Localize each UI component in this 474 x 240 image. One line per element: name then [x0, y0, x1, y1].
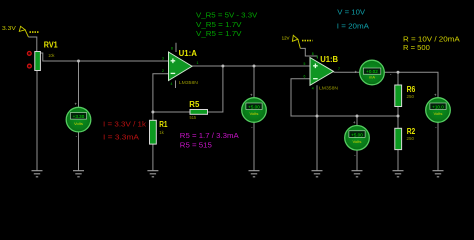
svg-text:+: + [354, 69, 357, 74]
svg-text:Volts: Volts [353, 140, 362, 144]
svg-text:R5: R5 [189, 100, 200, 109]
svg-text:3.3V: 3.3V [2, 26, 17, 32]
svg-text:R5 = 1.7 / 3.3mA: R5 = 1.7 / 3.3mA [180, 131, 240, 140]
svg-text:mA: mA [369, 75, 376, 79]
svg-text:250: 250 [407, 94, 415, 99]
svg-text:5: 5 [304, 62, 306, 66]
svg-text:8: 8 [312, 52, 314, 56]
svg-text:U1:B: U1:B [320, 55, 338, 64]
svg-text:2: 2 [162, 69, 164, 73]
svg-text:I = 3.3mA: I = 3.3mA [103, 132, 140, 141]
svg-text:1k: 1k [159, 130, 164, 135]
svg-text:+: + [250, 92, 253, 97]
svg-text:+: + [434, 92, 437, 97]
svg-text:+0.02: +0.02 [366, 69, 378, 74]
svg-text:8: 8 [171, 46, 173, 50]
svg-text:1: 1 [197, 61, 199, 65]
svg-text:Volts: Volts [74, 122, 83, 126]
svg-text:V_R5 = 1.7V: V_R5 = 1.7V [196, 29, 242, 38]
svg-text:+5.00: +5.00 [248, 105, 260, 110]
svg-text:515: 515 [190, 115, 197, 120]
svg-text:7: 7 [338, 67, 340, 71]
svg-text:6: 6 [304, 75, 306, 79]
svg-text:R2: R2 [407, 127, 416, 136]
svg-text:R5 = 515: R5 = 515 [180, 141, 212, 150]
svg-text:V_R5 = 1.7V: V_R5 = 1.7V [196, 20, 242, 29]
svg-text:R6: R6 [407, 85, 416, 94]
svg-text:U1:A: U1:A [179, 49, 198, 58]
svg-text:I = 3.3V / 1k: I = 3.3V / 1k [103, 120, 146, 129]
svg-text:3: 3 [162, 56, 164, 60]
svg-text:RV1: RV1 [44, 40, 59, 49]
svg-text:Volts: Volts [250, 112, 259, 116]
svg-text:+5.00: +5.00 [351, 132, 363, 137]
svg-text:+3.30: +3.30 [73, 114, 85, 119]
svg-text:250: 250 [407, 136, 415, 141]
svg-text:Volts: Volts [434, 112, 443, 116]
svg-text:V_R5 = 5V - 3.3V: V_R5 = 5V - 3.3V [196, 10, 258, 19]
svg-text:I = 20mA: I = 20mA [337, 21, 370, 30]
svg-text:4: 4 [312, 87, 314, 91]
svg-text:LM358N: LM358N [319, 85, 338, 90]
svg-text:10k: 10k [48, 53, 55, 58]
svg-text:R1: R1 [159, 120, 168, 129]
svg-text:4: 4 [171, 82, 173, 86]
svg-text:LM358N: LM358N [179, 80, 198, 85]
svg-text:+: + [353, 120, 356, 125]
svg-text:+10.0: +10.0 [432, 105, 444, 110]
svg-text:12V: 12V [282, 36, 290, 41]
svg-text:+: + [74, 102, 77, 107]
svg-text:V = 10V: V = 10V [337, 8, 366, 17]
svg-text:R = 500: R = 500 [403, 43, 430, 52]
